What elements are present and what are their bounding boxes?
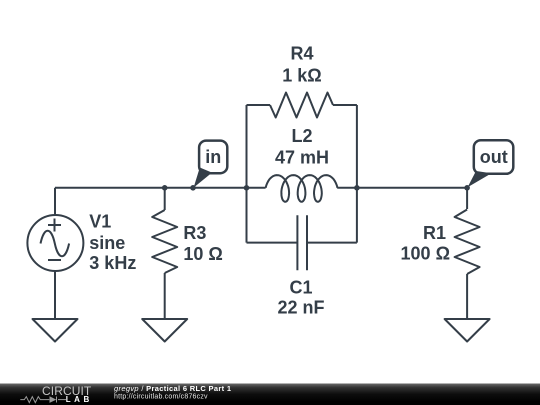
ground under V1 (33, 319, 78, 342)
wire R3 bottom stem (164, 273, 166, 319)
ground under R3 (142, 319, 187, 342)
CircuitLab logo squiggle resistor and diode (20, 397, 66, 403)
wire R1 bottom stem (466, 274, 468, 319)
wire V1 bottom stem (54, 271, 56, 320)
svg-text:3 kHz: 3 kHz (89, 253, 136, 273)
wire tank top right (333, 104, 357, 106)
node out junction (464, 185, 470, 191)
node junction tank left (244, 185, 250, 191)
svg-text:22 nF: 22 nF (277, 298, 324, 318)
V1 plus sign (48, 219, 61, 232)
footer bar (0, 384, 540, 405)
node junction at R3 (162, 185, 168, 191)
svg-text:1 kΩ: 1 kΩ (282, 66, 321, 86)
svg-text:100 Ω: 100 Ω (401, 243, 450, 263)
svg-text:http://circuitlab.com/c876czv: http://circuitlab.com/c876czv (114, 394, 208, 401)
wire tank left vertical (246, 105, 248, 243)
wire R3 top stem (164, 188, 166, 210)
svg-text:out: out (480, 147, 508, 167)
wire tank bottom left (247, 242, 298, 244)
voltage source V1 (27, 215, 83, 271)
wire from inductor to out node (337, 187, 467, 189)
node flag box "out" (474, 140, 514, 174)
wire tank right vertical (356, 105, 358, 243)
svg-text:R4: R4 (290, 44, 313, 64)
in flag tail (194, 168, 212, 188)
node in junction (190, 185, 196, 191)
resistor R1 (455, 210, 480, 275)
svg-text:R3: R3 (183, 223, 206, 243)
svg-text:in: in (205, 147, 221, 167)
svg-text:C1: C1 (289, 278, 312, 298)
node junction tank right (354, 185, 360, 191)
svg-text:10 Ω: 10 Ω (183, 244, 222, 264)
node flag box "in" (199, 141, 227, 174)
svg-text:R1: R1 (423, 223, 446, 243)
svg-text:LAB: LAB (66, 395, 93, 404)
wire main horizontal net from V1 to inductor (55, 187, 266, 189)
svg-text:gregvp / Practical 6 RLC Part: gregvp / Practical 6 RLC Part 1 (114, 384, 231, 393)
svg-text:sine: sine (89, 233, 125, 253)
ground under R1 (445, 319, 490, 342)
resistor R4 (270, 93, 333, 118)
inductor L2 (266, 175, 338, 202)
out flag tail (468, 171, 492, 187)
capacitor C1 (297, 215, 307, 270)
wire V1 top stem (54, 188, 56, 216)
svg-text:L2: L2 (291, 126, 312, 146)
wire R1 top stem (466, 188, 468, 209)
svg-text:47 mH: 47 mH (275, 147, 329, 167)
V1 sine symbol (41, 231, 70, 257)
wire tank bottom right (307, 242, 357, 244)
svg-text:V1: V1 (89, 211, 111, 231)
V1 minus sign (48, 259, 61, 261)
resistor R3 (152, 210, 177, 273)
wire tank top left (247, 104, 271, 106)
